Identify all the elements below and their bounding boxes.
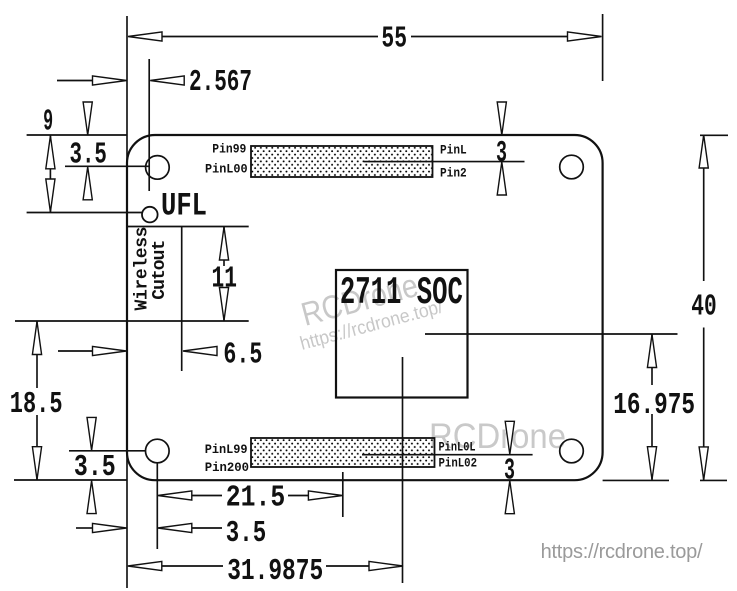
svg-text:3: 3 xyxy=(496,136,507,171)
svg-text:Cutout: Cutout xyxy=(150,240,170,300)
svg-text:3.5: 3.5 xyxy=(74,450,116,485)
svg-text:PinL99: PinL99 xyxy=(205,442,248,457)
svg-text:3.5: 3.5 xyxy=(70,138,107,173)
svg-text:9: 9 xyxy=(43,105,53,140)
svg-text:UFL: UFL xyxy=(161,187,207,224)
svg-text:3: 3 xyxy=(504,453,515,488)
svg-text:16.975: 16.975 xyxy=(613,388,695,423)
svg-text:21.5: 21.5 xyxy=(226,481,285,516)
svg-text:11: 11 xyxy=(212,261,237,296)
svg-text:3.5: 3.5 xyxy=(226,516,266,551)
svg-text:2.567: 2.567 xyxy=(189,65,252,100)
svg-text:55: 55 xyxy=(381,22,407,57)
svg-text:https://rcdrone.top/: https://rcdrone.top/ xyxy=(541,541,703,563)
svg-text:PinL0L: PinL0L xyxy=(439,439,476,454)
svg-text:Pin2: Pin2 xyxy=(440,165,467,180)
svg-text:31.9875: 31.9875 xyxy=(227,554,323,589)
svg-text:Pin200: Pin200 xyxy=(205,460,249,475)
svg-text:6.5: 6.5 xyxy=(223,338,262,373)
svg-text:18.5: 18.5 xyxy=(10,387,63,422)
svg-text:PinL00: PinL00 xyxy=(205,161,248,176)
svg-text:2711 SOC: 2711 SOC xyxy=(340,271,463,315)
svg-text:PinL: PinL xyxy=(440,142,467,157)
svg-text:PinL02: PinL02 xyxy=(439,456,478,471)
svg-text:40: 40 xyxy=(691,289,716,324)
svg-text:Pin99: Pin99 xyxy=(212,141,246,156)
